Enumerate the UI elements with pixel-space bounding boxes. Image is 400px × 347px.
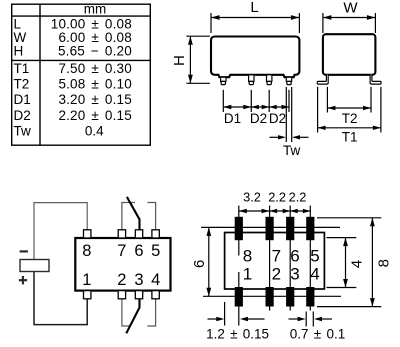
pin 8 stub: [84, 230, 91, 238]
svg-text:3.20 ± 0.15: 3.20 ± 0.15: [58, 92, 131, 107]
side view pin 4: [286, 77, 291, 84]
svg-text:2: 2: [117, 271, 126, 289]
dimension 4 extension lines: [327, 238, 357, 288]
pad 8/1 centerline: [238, 206, 240, 326]
footprint pad 3: [286, 287, 294, 307]
svg-text:D1: D1: [224, 111, 241, 126]
svg-text:7: 7: [117, 242, 126, 260]
dimension 1.2 arrows: [208, 318, 217, 320]
dimension D2 (second): [269, 106, 289, 108]
svg-text:8: 8: [82, 242, 91, 260]
dimension 8 extension lines: [317, 218, 381, 307]
svg-text:0.4: 0.4: [85, 123, 104, 138]
dimension 0.7 extension lines: [306, 312, 313, 327]
pin 1 stub: [84, 291, 91, 299]
svg-text:T2: T2: [14, 77, 30, 92]
svg-text:3: 3: [290, 265, 299, 284]
dimension D2 (first): [251, 106, 269, 108]
dimension D1 extension lines: [223, 90, 289, 112]
dimension 1.2 extension line: [224, 302, 226, 326]
contact wire pin5 hook: [147, 203, 155, 230]
relay coil box: [20, 260, 49, 272]
svg-text:2.2: 2.2: [268, 189, 286, 204]
side view pin 1: [221, 77, 226, 84]
dimension T1: [318, 87, 381, 133]
footprint pad 6: [286, 217, 294, 240]
svg-text:7.50 ± 0.30: 7.50 ± 0.30: [58, 61, 131, 76]
svg-text:0.7 ± 0.1: 0.7 ± 0.1: [290, 326, 345, 341]
dimension 3.2: [239, 210, 270, 212]
svg-text:T1: T1: [14, 61, 30, 76]
pin 6 stub: [135, 230, 142, 238]
svg-text:7: 7: [272, 246, 281, 265]
side view pin 2: [249, 75, 254, 85]
svg-text:W: W: [343, 0, 358, 16]
dimension 8: [371, 218, 373, 307]
dimension D1: [223, 106, 251, 108]
dimension 2.2 (first): [270, 210, 291, 212]
dimension Tw arrows: [270, 136, 279, 138]
switch blade (bottom): [126, 299, 139, 334]
svg-text:6: 6: [191, 260, 208, 268]
coil polarity plus: [19, 276, 27, 284]
svg-text:D2: D2: [14, 108, 31, 123]
table row values: [51, 17, 132, 123]
svg-text:4: 4: [151, 271, 160, 289]
footprint pad 2: [266, 287, 274, 307]
switch blade (top): [127, 197, 140, 230]
footprint pad 4: [306, 287, 314, 307]
pad 7/2 centerline: [269, 206, 271, 311]
svg-text:8: 8: [376, 259, 393, 267]
footprint pad 1: [235, 287, 243, 307]
footprint pin numbers top row: [243, 246, 320, 265]
footprint pad 5: [306, 217, 314, 240]
footprint pin numbers bottom row: [243, 265, 320, 284]
svg-text:5: 5: [310, 246, 319, 265]
end view right leg: [370, 75, 381, 84]
svg-text:4: 4: [310, 265, 319, 284]
svg-text:Tw: Tw: [283, 143, 301, 158]
svg-text:8: 8: [243, 246, 252, 265]
svg-text:3: 3: [134, 271, 143, 289]
schematic pin numbers top row: [82, 242, 160, 260]
svg-text:T1: T1: [342, 129, 358, 144]
dimension 2.2 (second): [290, 210, 310, 212]
contact wire pin7 hook: [122, 203, 135, 230]
svg-text:D2: D2: [250, 111, 267, 126]
svg-text:1: 1: [243, 265, 252, 284]
dimension table frame: [12, 4, 151, 145]
svg-text:1.2 ± 0.15: 1.2 ± 0.15: [206, 326, 269, 341]
dimension L: [211, 13, 299, 33]
pin 4 stub: [152, 291, 159, 299]
schematic pin numbers bottom row: [82, 271, 160, 289]
footprint pad 7: [266, 217, 274, 240]
pin 7 stub: [118, 230, 125, 238]
dimension 6: [208, 227, 210, 296]
svg-text:H: H: [171, 55, 188, 66]
footprint pad 8: [235, 217, 243, 240]
dimension 4: [345, 238, 347, 288]
svg-text:6: 6: [134, 242, 143, 260]
dimension Tw extension lines: [286, 87, 291, 142]
package end view body: [323, 34, 376, 75]
svg-text:Tw: Tw: [14, 123, 32, 138]
svg-text:2.20 ± 0.15: 2.20 ± 0.15: [58, 108, 131, 123]
svg-text:2: 2: [272, 265, 281, 284]
pad 5/4 centerline: [309, 206, 311, 311]
svg-text:5: 5: [151, 242, 160, 260]
svg-text:5.08 ± 0.10: 5.08 ± 0.10: [58, 77, 131, 92]
svg-text:mm: mm: [84, 2, 107, 17]
dimension 0.7 arrows: [289, 318, 298, 320]
svg-text:3.2: 3.2: [243, 189, 261, 204]
package side view body: [211, 37, 299, 78]
pin 3 stub: [135, 291, 142, 299]
relay coil wire (top): [34, 203, 87, 260]
dimension 6 extension lines: [201, 227, 341, 296]
dimension W: [323, 13, 376, 33]
contact wire pin2 hook: [122, 299, 130, 326]
svg-text:L: L: [250, 0, 258, 16]
relay body U1: [75, 238, 170, 291]
svg-text:D1: D1: [14, 92, 31, 107]
coil polarity minus: [20, 250, 28, 252]
svg-text:T2: T2: [342, 111, 358, 126]
pin 2 stub: [118, 291, 125, 299]
svg-text:5.65 − 0.20: 5.65 − 0.20: [58, 44, 132, 59]
pad 6/3 centerline: [289, 206, 291, 311]
dimension T2: [327, 87, 371, 113]
svg-text:6: 6: [290, 246, 299, 265]
end view left leg: [317, 75, 328, 84]
contact wire pin4 hook: [147, 299, 155, 326]
svg-text:4: 4: [348, 260, 365, 268]
side view pin 3: [267, 75, 272, 85]
svg-text:1: 1: [82, 271, 91, 289]
pin 5 stub: [152, 230, 159, 238]
table row labels: [14, 17, 32, 139]
footprint outline: [225, 233, 325, 290]
svg-text:H: H: [14, 44, 24, 59]
relay coil wire (bottom): [34, 272, 87, 325]
dimension H: [186, 36, 210, 83]
svg-text:D2: D2: [269, 111, 286, 126]
svg-text:2.2: 2.2: [289, 189, 307, 204]
